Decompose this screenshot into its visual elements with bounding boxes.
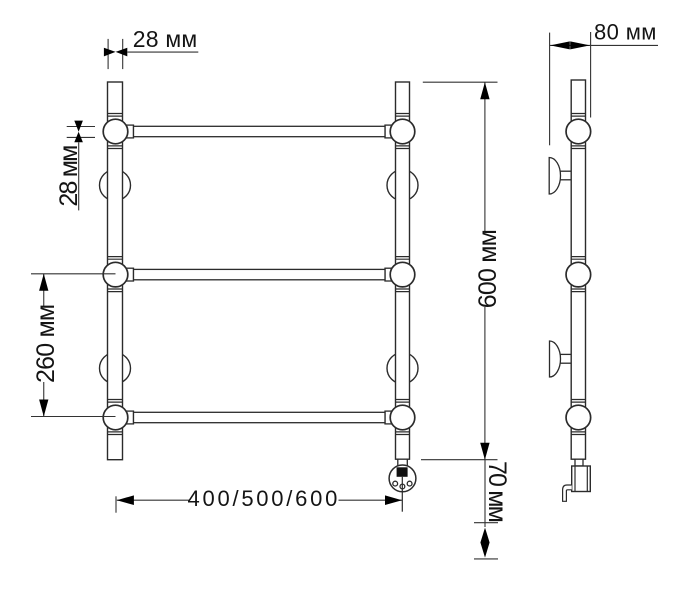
side tube (571, 80, 585, 459)
arrow left 400/500/600 (117, 495, 134, 505)
svg-text:28 мм: 28 мм (133, 26, 198, 52)
arrow right 400/500/600 (385, 495, 402, 505)
svg-text:80 мм: 80 мм (594, 19, 657, 44)
svg-text:260 мм: 260 мм (32, 305, 60, 383)
bar 3 stubs (115, 411, 134, 424)
dim line 28mm top (127, 51, 198, 53)
diamond arrows 70mm (480, 528, 489, 558)
ball joints front (103, 119, 415, 430)
plug center extension line (401, 477, 403, 512)
arrow down 260mm (39, 400, 48, 417)
dim line 70mm (484, 460, 486, 527)
ball joints side (566, 119, 591, 430)
wall bracket circle bottom-right (387, 353, 418, 384)
ext line top 600mm (423, 81, 498, 83)
right post (396, 82, 410, 459)
side bracket lower dome (550, 341, 561, 377)
arrow up 600mm (480, 82, 489, 99)
bar 2 stubs (115, 268, 134, 281)
dim line 400/500/600 (117, 499, 189, 501)
bar 2 tube (134, 269, 386, 279)
ext lines 28mm top (107, 39, 109, 69)
plug black block (397, 467, 408, 477)
arrow down 600mm (480, 443, 489, 460)
plug pins (393, 481, 412, 489)
bar 1 stubs (115, 125, 134, 138)
left post (108, 82, 123, 460)
wall bracket circle top-right (387, 170, 418, 201)
bar 1 tube (134, 126, 386, 136)
left tick (115, 496, 117, 512)
wall bracket circle bottom-left (100, 353, 131, 384)
wall bracket circle top-left (100, 170, 131, 201)
side bottom box (572, 466, 591, 492)
plug neck (398, 459, 408, 466)
bowtie arrows 28mm left (74, 121, 83, 143)
ext lines 80mm (549, 33, 551, 146)
bar 3 tube (134, 412, 386, 422)
svg-text:600 мм: 600 мм (474, 230, 502, 308)
ext line bottom 600mm (421, 459, 498, 461)
collar lines right post (396, 114, 410, 435)
ext line bottom 70mm (474, 558, 498, 560)
collar lines side tube (571, 114, 585, 435)
svg-text:70 мм: 70 мм (483, 461, 511, 522)
bowtie arrows 28mm top (104, 48, 127, 57)
side hook pipe (563, 485, 572, 501)
arrow up 260mm (39, 274, 48, 291)
side bottom neck (575, 459, 583, 466)
svg-text:400/500/600: 400/500/600 (188, 486, 341, 511)
side bracket upper dome (549, 158, 560, 195)
dim line 80mm (550, 44, 658, 46)
side bracket lower stem (559, 354, 572, 363)
leader line 28mm left (78, 142, 80, 210)
arrows 80mm (550, 41, 590, 49)
collar lines left post (108, 114, 123, 435)
dim line 600mm (484, 82, 486, 231)
ext lines 260mm (31, 273, 116, 275)
svg-text:28 мм: 28 мм (55, 146, 83, 207)
plug body circle (389, 465, 416, 492)
ext line mid 70mm (474, 522, 498, 524)
side bottom box inner lines (574, 466, 576, 492)
ext lines 28mm left (67, 126, 95, 128)
side bracket upper stem (559, 171, 572, 180)
dim line 260mm (43, 274, 45, 306)
